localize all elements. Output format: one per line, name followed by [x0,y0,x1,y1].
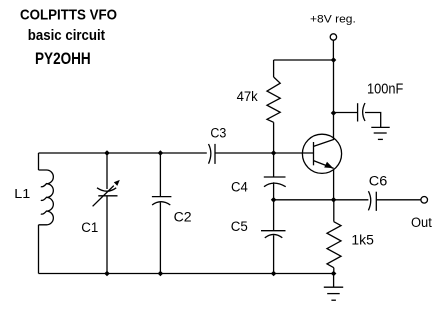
wire node to 100nF [334,112,358,114]
label 1k5 [351,233,373,247]
capacitor C2 [152,196,172,198]
transistor Q1 [302,134,341,173]
capacitor C3 [209,144,211,164]
wire C1 top [106,153,108,189]
capacitor C4 [273,153,275,177]
wire top horizontal to 47k [274,59,334,61]
wire 47k top lead [273,60,275,77]
title COLPITTS VFO [20,8,117,23]
wire emitter link [274,199,334,201]
wire emitter down [333,170,335,200]
capacitor C6 [368,191,370,210]
wire C2 bottom [159,203,161,274]
capacitor C5 [273,200,275,231]
node C1 bottom [104,271,110,277]
wire tank rail left of C3 [39,152,207,154]
wire rail into transistor collector [333,113,335,140]
label 100nF [367,82,403,97]
wire C6 to out terminal [376,199,421,201]
wire C3 to base [215,152,313,154]
ground (emitter resistor) [324,286,343,288]
label +8V reg. [310,14,356,25]
label C6 [369,174,387,188]
label C2 [174,211,192,225]
resistor 47k [267,77,280,122]
capacitor C1 (variable) [97,188,116,191]
title PY2OHH [35,50,91,67]
node 1k5 bottom [331,271,337,277]
wire bottom rail [39,273,334,275]
ground (100nF) [371,126,389,128]
node C2 bottom [158,271,164,277]
node C5 bottom [271,271,277,277]
wire C2 top [159,153,161,197]
capacitor 100nF [357,103,359,121]
label C3 [210,126,226,139]
terminal Out [421,197,428,204]
resistor 1k5 [333,200,335,222]
terminal +8V [330,34,336,40]
wire emitter to C6 [334,199,369,201]
node C1 top [104,150,110,156]
wire terminal to node [332,40,334,60]
label C5 [231,220,248,234]
wire 47k bottom lead [273,122,275,153]
wire C1 bottom [106,196,108,274]
label 47k [237,89,258,103]
wire ground stub [333,274,335,288]
node C2 top [158,150,164,156]
node at 100nF tap [331,110,337,116]
label C4 [231,180,248,194]
node C4/C5 junction [271,197,277,203]
label C1 [81,221,98,235]
title basic circuit [28,28,105,43]
wire rail node to 100nF node [333,60,335,113]
label L1 [14,188,30,201]
wire 100nF to ground [365,113,381,128]
node emitter [331,197,337,203]
node at +8V rail top [331,57,337,63]
node base junction [271,150,277,156]
inductor L1 [38,153,40,170]
label Out [411,216,432,230]
